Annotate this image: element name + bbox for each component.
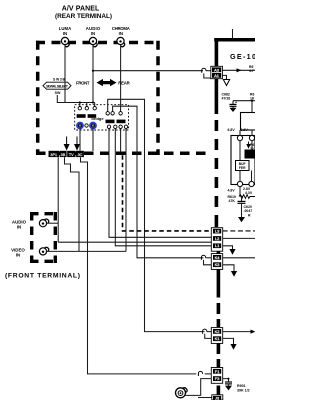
jack LUMA IN <box>61 37 69 46</box>
resistor R619 label <box>228 195 236 203</box>
svg-text:IN: IN <box>16 253 20 258</box>
switch direction arrow <box>97 79 117 86</box>
svg-text:K1: K1 <box>215 336 221 341</box>
wire test point to F3 <box>186 379 212 396</box>
connector strip TV3B <box>49 151 84 157</box>
wire K2 into board arrow <box>223 330 256 334</box>
connector K2 K1 <box>211 328 222 344</box>
svg-text:39K 1/2: 39K 1/2 <box>237 389 250 393</box>
wire pin to resistor <box>239 187 241 197</box>
title A/V PANEL <box>55 6 112 20</box>
svg-text:(REAR TERMINAL): (REAR TERMINAL) <box>55 13 112 20</box>
IC pin circle 3 <box>237 181 242 186</box>
svg-text:K3: K3 <box>215 262 221 267</box>
switch contact bar 4 <box>117 120 126 124</box>
connector K4 K3 <box>211 254 222 270</box>
svg-text:IN: IN <box>91 31 95 36</box>
wire audio jack down <box>92 45 94 103</box>
ground with plates <box>225 382 232 390</box>
dashed wire L3 into board <box>223 230 255 232</box>
wire hook tail to K1 <box>205 334 212 339</box>
svg-text:TV: TV <box>69 153 74 157</box>
detector block <box>236 161 250 171</box>
svg-text:AM: AM <box>246 154 251 158</box>
wire hook tail to K3 <box>204 260 212 265</box>
annotation blue circle terminal 1 <box>77 123 83 129</box>
GE board left border dashed <box>215 120 221 395</box>
test point jack <box>176 388 188 398</box>
wire blue terminal 2 down to strip <box>92 128 94 151</box>
wire L2 into board <box>223 237 255 239</box>
svg-text:IN: IN <box>63 31 67 36</box>
label VIDEO IN front <box>11 248 25 258</box>
svg-text:F1: F1 <box>215 369 220 374</box>
svg-text:IN: IN <box>119 31 123 36</box>
wire switch common bus <box>57 95 94 103</box>
wire hook to K4 <box>206 257 212 259</box>
junction dot <box>92 70 94 72</box>
inline connector hook A3 <box>202 68 206 73</box>
switch contact bar 1 <box>77 114 86 118</box>
svg-text:GE-10: GE-10 <box>230 52 255 61</box>
svg-text:4.7: 4.7 <box>249 69 254 73</box>
junction dot <box>79 101 81 103</box>
switch contact box (dotted) <box>75 105 129 130</box>
svg-text:A1: A1 <box>214 73 220 78</box>
wire riser to contact <box>86 103 88 107</box>
svg-text:1K: 1K <box>250 97 255 101</box>
switch front contacts terminals top <box>78 107 122 116</box>
label CHROMA IN <box>112 26 130 36</box>
label AUDIO IN <box>86 26 101 36</box>
connector F1 F3 <box>211 368 222 384</box>
wire det to pin <box>251 171 253 182</box>
wire contact to L1 <box>115 129 212 246</box>
arrow into connector strip 2 <box>74 137 80 151</box>
wire A1 to chassis ground <box>222 75 226 79</box>
junction dot F3 <box>228 378 230 380</box>
wire hook to A3 <box>206 70 211 72</box>
label AUDIO IN front <box>12 220 27 230</box>
svg-text:3P1: 3P1 <box>50 153 57 157</box>
wire riser to contact <box>79 103 81 107</box>
inline connector hook K4 <box>201 255 205 260</box>
svg-text:SW3B: SW3B <box>53 77 66 81</box>
ground C620 <box>238 217 245 222</box>
rear terminal panel dashed border <box>36 41 208 155</box>
GE board left border solid <box>215 38 219 114</box>
shield boundary dashed <box>123 155 211 231</box>
IC pin circle 4 <box>249 181 254 186</box>
svg-text:47K: 47K <box>229 199 236 203</box>
wire front audio jack <box>47 222 59 224</box>
switch contact bar 2 <box>88 114 97 118</box>
connector L3 L2 L1 <box>211 228 222 252</box>
wire K3 right bend arrow <box>223 265 237 277</box>
resistor fragment right edge <box>250 143 254 151</box>
svg-text:L3: L3 <box>215 229 220 234</box>
arrow inside IC <box>246 140 252 149</box>
wire riser to contact <box>94 103 96 107</box>
wire K4 into board <box>223 257 255 259</box>
capacitor C682 label <box>222 93 231 101</box>
label 2.8V 4.3V <box>243 187 253 195</box>
svg-text:4.8V: 4.8V <box>228 189 236 193</box>
svg-text:K2: K2 <box>215 329 221 334</box>
arrow into connector strip 1 <box>64 137 70 151</box>
svg-text:6.8V: 6.8V <box>228 128 236 132</box>
svg-text:K4: K4 <box>215 255 221 260</box>
wire strip to front audio <box>57 157 59 242</box>
connector J3 <box>212 395 223 400</box>
svg-text:R901: R901 <box>237 384 246 388</box>
wire contact to panel edge <box>120 129 122 153</box>
svg-text:.0047: .0047 <box>244 209 253 213</box>
jack front video <box>39 247 48 255</box>
wire chroma jack down <box>120 45 122 112</box>
junction dot node <box>251 100 253 102</box>
jack AUDIO IN <box>89 37 97 46</box>
switch contact bar 3 <box>106 120 115 124</box>
IC pin circle 2 <box>249 135 254 140</box>
resistor label fragment right edge <box>249 65 254 73</box>
wire audio to GE board A3 <box>93 70 203 72</box>
svg-text:47/16: 47/16 <box>222 97 231 101</box>
wire stub above board <box>232 29 234 38</box>
resistor R619 zigzag <box>239 195 255 199</box>
svg-text:FRONT: FRONT <box>76 80 90 85</box>
jack front audio <box>39 219 48 227</box>
svg-text:FER: FER <box>239 166 246 170</box>
chassis ground arrow A1 <box>223 80 229 86</box>
jack CHROMA IN <box>117 37 125 46</box>
wire strip to F1 <box>81 157 197 374</box>
wire hook to A1 <box>204 74 211 79</box>
ground C682 <box>230 108 237 112</box>
component box right edge <box>241 113 257 131</box>
wire node to box <box>251 101 253 113</box>
inline connector hook F1 <box>198 371 202 376</box>
GE board top border <box>214 38 255 42</box>
capacitor C682 <box>230 101 256 108</box>
svg-text:A/V PANEL: A/V PANEL <box>62 6 100 13</box>
wire hook to K2 <box>207 331 212 333</box>
connector A3 A1 <box>211 66 223 78</box>
svg-text:bridge: bridge <box>91 116 104 121</box>
svg-text:L2: L2 <box>215 236 220 241</box>
svg-text:L1: L1 <box>215 243 220 248</box>
annotation blue circle terminal 2 <box>90 123 96 129</box>
wire contact to L3 <box>109 129 212 238</box>
wire to J3 <box>198 397 212 399</box>
capacitor C620 <box>238 197 246 218</box>
svg-text:3.6V: 3.6V <box>241 128 249 132</box>
wire L1 bend with arrow <box>223 246 236 255</box>
svg-text:F3: F3 <box>215 376 220 381</box>
svg-text:IN: IN <box>17 225 21 230</box>
wire stubs into IC <box>239 130 241 136</box>
svg-text:4.3V: 4.3V <box>245 191 253 195</box>
wire luma jack down <box>64 45 66 103</box>
svg-text:(FRONT TERMINAL): (FRONT TERMINAL) <box>5 272 80 279</box>
svg-text:A3: A3 <box>214 67 220 72</box>
switch terminals bottom <box>85 124 128 129</box>
front terminal dashed border <box>30 212 57 263</box>
junction dot R619 <box>241 196 243 198</box>
wire front video jack <box>47 250 126 252</box>
inline connector hook K2 <box>203 329 207 334</box>
wire strip staircase to video <box>65 157 80 251</box>
wire inside IC <box>239 141 241 182</box>
IC block outline <box>231 136 255 185</box>
junction dot <box>92 101 94 103</box>
wire F3 to ground cap <box>223 379 229 382</box>
svg-text:3B: 3B <box>61 153 66 157</box>
label LUMA IN <box>59 26 72 36</box>
wire blue terminal 1 down to strip <box>79 128 81 151</box>
wire K1 right bend arrow <box>223 338 237 349</box>
wire A3 out with arrow <box>222 68 255 72</box>
svg-text:3C: 3C <box>78 153 83 157</box>
capacitor C620 label <box>244 205 253 218</box>
wire contact to video front <box>125 129 127 252</box>
wire loop inner to K4 <box>113 106 204 258</box>
wire to L2 <box>58 241 212 243</box>
buffer amp block <box>245 150 256 159</box>
svg-text:SW: SW <box>55 91 61 95</box>
wire loop outer to K2 <box>108 99 205 331</box>
IC pin circle 1 <box>237 135 242 140</box>
wire hook to F1 <box>205 373 212 375</box>
resistor label fragment 1K <box>250 93 255 101</box>
switch S901 signal select label <box>43 77 71 95</box>
resistor R901 label <box>237 384 250 393</box>
